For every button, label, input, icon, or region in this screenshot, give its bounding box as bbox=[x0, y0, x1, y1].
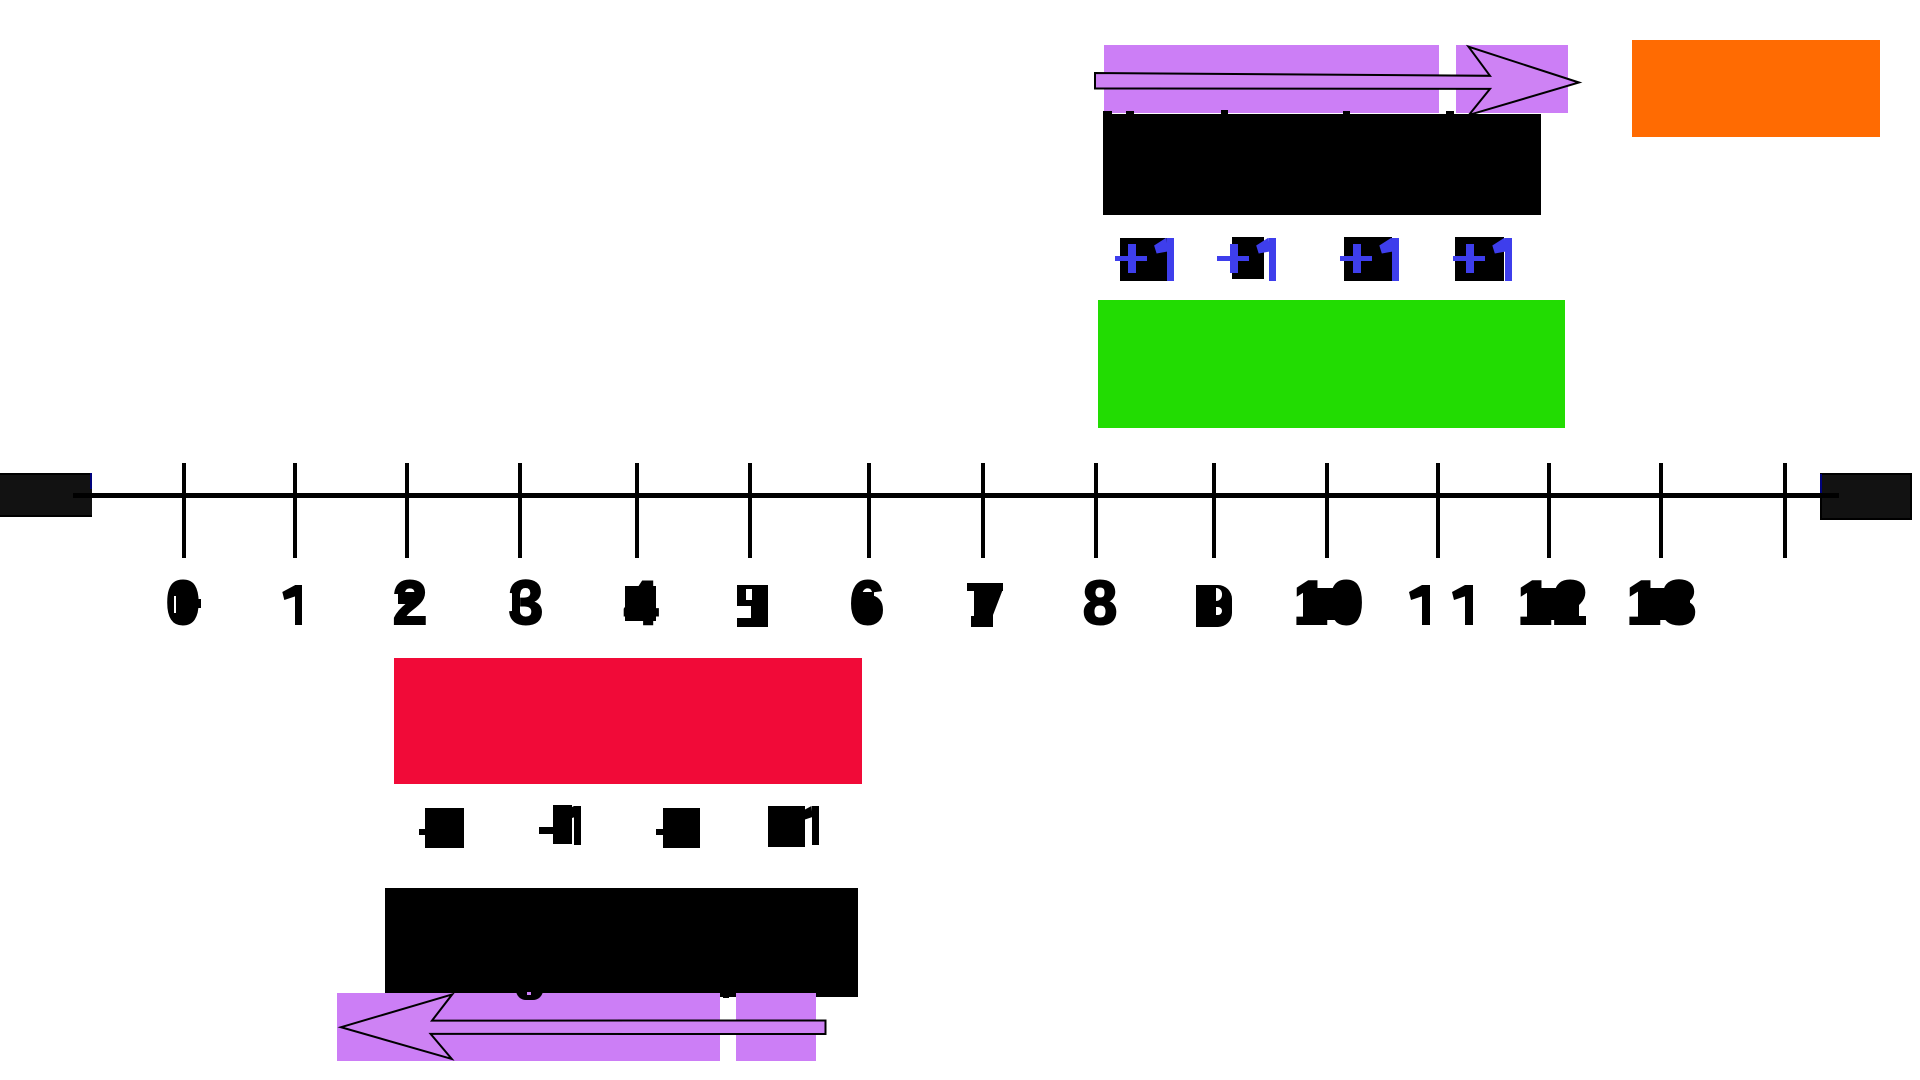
+1 label 2 black box bbox=[1232, 237, 1264, 279]
tick 4 bbox=[635, 463, 639, 558]
tick 1 bbox=[293, 463, 297, 558]
orange rect bbox=[1632, 40, 1880, 137]
tick 5 bbox=[748, 463, 752, 558]
+1 label 1 text bbox=[1115, 238, 1175, 282]
top purple highlight rect 2 bbox=[1456, 45, 1568, 113]
-1 label 4 black box bbox=[768, 806, 805, 847]
tick 13 bbox=[1659, 463, 1663, 558]
glyph notch in purple gap bbox=[723, 995, 729, 998]
number label 1 bbox=[282, 585, 302, 625]
number label 5 lower-left notch bbox=[737, 606, 751, 618]
number label 6 bbox=[787, 573, 947, 635]
tick 9 bbox=[1212, 463, 1216, 558]
number label 10 fill bbox=[1303, 588, 1353, 620]
descender blob of hidden text bbox=[516, 990, 543, 1000]
+1 label 4 text bbox=[1453, 238, 1513, 282]
+1 label 3 text bbox=[1340, 238, 1400, 282]
tick 6 bbox=[867, 463, 871, 558]
-1 label 3 minus tab bbox=[656, 829, 665, 835]
tick 10 bbox=[1325, 463, 1329, 558]
number label 0 right bump bbox=[197, 599, 201, 608]
tick 8 bbox=[1094, 463, 1098, 558]
descender counter dash bbox=[527, 992, 531, 995]
number label 4 bbox=[561, 573, 721, 635]
tick 3 bbox=[518, 463, 522, 558]
tick 11 bbox=[1436, 463, 1440, 558]
number label 8 bbox=[1020, 573, 1180, 635]
right end redaction box bbox=[1820, 473, 1912, 520]
number label 7 bbox=[967, 583, 1003, 627]
top black box ascender bump 3 bbox=[1221, 110, 1228, 117]
+1 label 4 black box bbox=[1455, 237, 1504, 281]
number label 2 fill bbox=[398, 592, 416, 604]
number label 6 fill bbox=[857, 592, 874, 618]
tick 2 bbox=[405, 463, 409, 558]
top black box ascender bump 5 bbox=[1446, 111, 1454, 117]
number label 3 bbox=[446, 573, 606, 635]
left end redaction box bbox=[0, 473, 92, 517]
-1 label 2 black box bbox=[553, 805, 572, 844]
-1 label 2 minus tab bbox=[539, 827, 554, 834]
number label 4 fill bbox=[625, 586, 656, 621]
-1 label 1 black box bbox=[425, 808, 464, 848]
-1 label 4 digit 1 bbox=[799, 806, 819, 845]
number label 9 bbox=[1196, 585, 1232, 627]
number label 13 fill bbox=[1638, 588, 1690, 620]
+1 label 3 black box bbox=[1344, 237, 1392, 281]
number label 10 bbox=[1249, 573, 1409, 635]
number label 0 bbox=[103, 573, 263, 635]
top purple highlight rect 1 bbox=[1104, 45, 1439, 113]
number label 5 counter hole bbox=[746, 589, 752, 600]
bottom purple highlight rect big bbox=[337, 993, 720, 1061]
tick 7 bbox=[981, 463, 985, 558]
-1 label 3 black box bbox=[663, 808, 700, 848]
number label 3 fill bbox=[512, 592, 520, 618]
bottom black redaction box bbox=[385, 888, 858, 997]
number label 2 bbox=[330, 573, 490, 635]
number label 11 bbox=[1409, 585, 1473, 625]
-1 label 2 digit 1 bbox=[561, 806, 581, 845]
top black box ascender bump 1 bbox=[1103, 111, 1112, 117]
bottom left arrow (outlined purple) bbox=[336, 988, 831, 1066]
top right arrow (outlined purple) bbox=[1090, 40, 1590, 125]
left end box blue sliver bbox=[90, 473, 92, 489]
right end box blue sliver bbox=[1820, 474, 1822, 493]
top black redaction box bbox=[1103, 114, 1541, 215]
number label 0 counter cover bbox=[174, 588, 193, 621]
number label 0 counter slit bbox=[174, 596, 176, 613]
green rect bbox=[1098, 300, 1565, 428]
number label 13 bbox=[1582, 573, 1742, 635]
red rect bbox=[394, 658, 862, 784]
bottom purple highlight rect small bbox=[736, 993, 816, 1061]
tick 0 bbox=[182, 463, 186, 558]
tick 12 bbox=[1547, 463, 1551, 558]
+1 label 1 black box bbox=[1120, 238, 1167, 281]
tick 14 bbox=[1783, 463, 1787, 558]
number label 12 bbox=[1473, 573, 1633, 635]
number label 5 bbox=[737, 585, 768, 627]
number label 9 notch upper bbox=[1216, 588, 1222, 601]
top black box ascender bump 4 bbox=[1343, 111, 1350, 117]
+1 label 2 text bbox=[1217, 238, 1277, 282]
number label 9 notch lower bbox=[1216, 607, 1222, 615]
number label 12 fill bbox=[1527, 588, 1579, 620]
number line bbox=[73, 493, 1839, 498]
top black box ascender bump 2 bbox=[1126, 111, 1134, 117]
-1 label 1 minus tab bbox=[419, 829, 426, 835]
